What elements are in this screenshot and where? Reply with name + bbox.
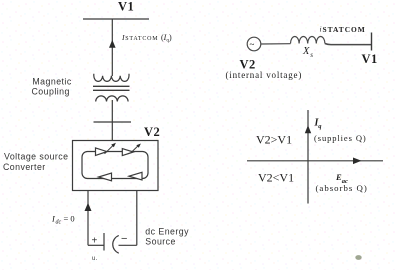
svg-text:= 0: = 0 [64, 214, 75, 224]
wire converter to dc source (right) [136, 191, 138, 246]
label absorbs Q [316, 183, 368, 193]
switch S2 triangle [122, 149, 133, 156]
svg-text:~: ~ [250, 40, 255, 50]
label iSTATCOM (right) [320, 25, 366, 35]
svg-text:dc: dc [56, 220, 62, 226]
svg-text:Voltage source: Voltage source [4, 151, 69, 161]
label Iq [314, 118, 323, 131]
wire dc bottom right [119, 244, 137, 246]
wire dc bottom left [88, 244, 104, 246]
node V1 label (left) [118, 0, 134, 14]
arrow Istatcom up [109, 40, 116, 48]
svg-text:i: i [320, 25, 322, 34]
svg-text:Magnetic: Magnetic [32, 76, 71, 86]
svg-text:(supplies Q): (supplies Q) [314, 133, 367, 143]
label internal voltage [226, 70, 303, 80]
converter outer box U1 [73, 141, 159, 191]
svg-text:u.: u. [92, 256, 98, 262]
arrow Idc up [85, 203, 92, 211]
svg-text:dc Energy: dc Energy [145, 227, 189, 237]
svg-text:s: s [310, 51, 313, 59]
svg-text:Coupling: Coupling [32, 87, 70, 97]
diode D2 triangle [129, 172, 142, 180]
label V2&lt;V1 [258, 171, 294, 185]
svg-text:V2>V1: V2>V1 [256, 133, 292, 147]
terminal bar V1 [371, 33, 373, 51]
svg-text:V2: V2 [144, 125, 160, 139]
battery minus sign [121, 233, 128, 245]
transformer core [93, 86, 130, 90]
label Magnetic Coupling [32, 76, 72, 96]
diode D1 triangle [99, 173, 112, 181]
svg-text:Converter: Converter [3, 162, 46, 172]
label V2&gt;V1 [256, 133, 292, 147]
svg-text:V1: V1 [118, 0, 134, 14]
wire transformer to V2 bus [111, 100, 113, 141]
AC source V2 [247, 37, 261, 51]
arrowhead Eac axis [353, 158, 362, 165]
label Eac [335, 172, 348, 185]
wire V1 bus to transformer [111, 19, 113, 76]
node V2 label (left) [144, 125, 160, 139]
label Istatcom (Iq) [121, 33, 172, 43]
switch S1 gate arrow [105, 145, 115, 154]
arrowhead Iq axis [305, 125, 311, 133]
bus bar V1 [83, 18, 149, 20]
svg-text:−: − [121, 233, 128, 245]
transformer secondary winding [96, 96, 128, 102]
converter inner loop [82, 152, 148, 179]
wire converter to dc source (left) [87, 191, 89, 246]
svg-text:X: X [302, 46, 310, 57]
transformer primary winding [94, 74, 129, 82]
label Xs [302, 46, 313, 59]
battery positive plate [103, 233, 105, 251]
wire source to reactance [261, 43, 291, 45]
wire reactance to V1 terminal [325, 44, 371, 45]
axis Eac horizontal [247, 160, 383, 162]
battery plus sign [92, 236, 98, 247]
axis Iq vertical [307, 110, 309, 204]
inductor Xs [291, 36, 325, 43]
label Voltage source Converter [3, 151, 69, 172]
battery negative plate (curved) [113, 236, 119, 254]
node V1 label (right) [362, 52, 378, 66]
svg-text:STATCOM: STATCOM [125, 36, 158, 42]
faint Vdc remnant [92, 256, 98, 262]
svg-text:V2<V1: V2<V1 [258, 171, 294, 185]
svg-text:(internal voltage): (internal voltage) [226, 70, 303, 80]
svg-text:V1: V1 [362, 52, 378, 66]
smudge artifact [355, 255, 361, 260]
bus bar V2 [94, 121, 132, 123]
label Idc = 0 [51, 214, 75, 226]
svg-text:+: + [92, 236, 98, 247]
label dc Energy Source [145, 227, 189, 247]
switch S2 gate arrow [131, 145, 139, 153]
svg-text:Source: Source [145, 236, 176, 246]
svg-text:STATCOM: STATCOM [323, 25, 366, 34]
node V2 label (right) [240, 58, 256, 72]
svg-text:(absorbs Q): (absorbs Q) [316, 183, 368, 193]
label supplies Q [314, 133, 367, 143]
switch S1 triangle [96, 148, 108, 156]
